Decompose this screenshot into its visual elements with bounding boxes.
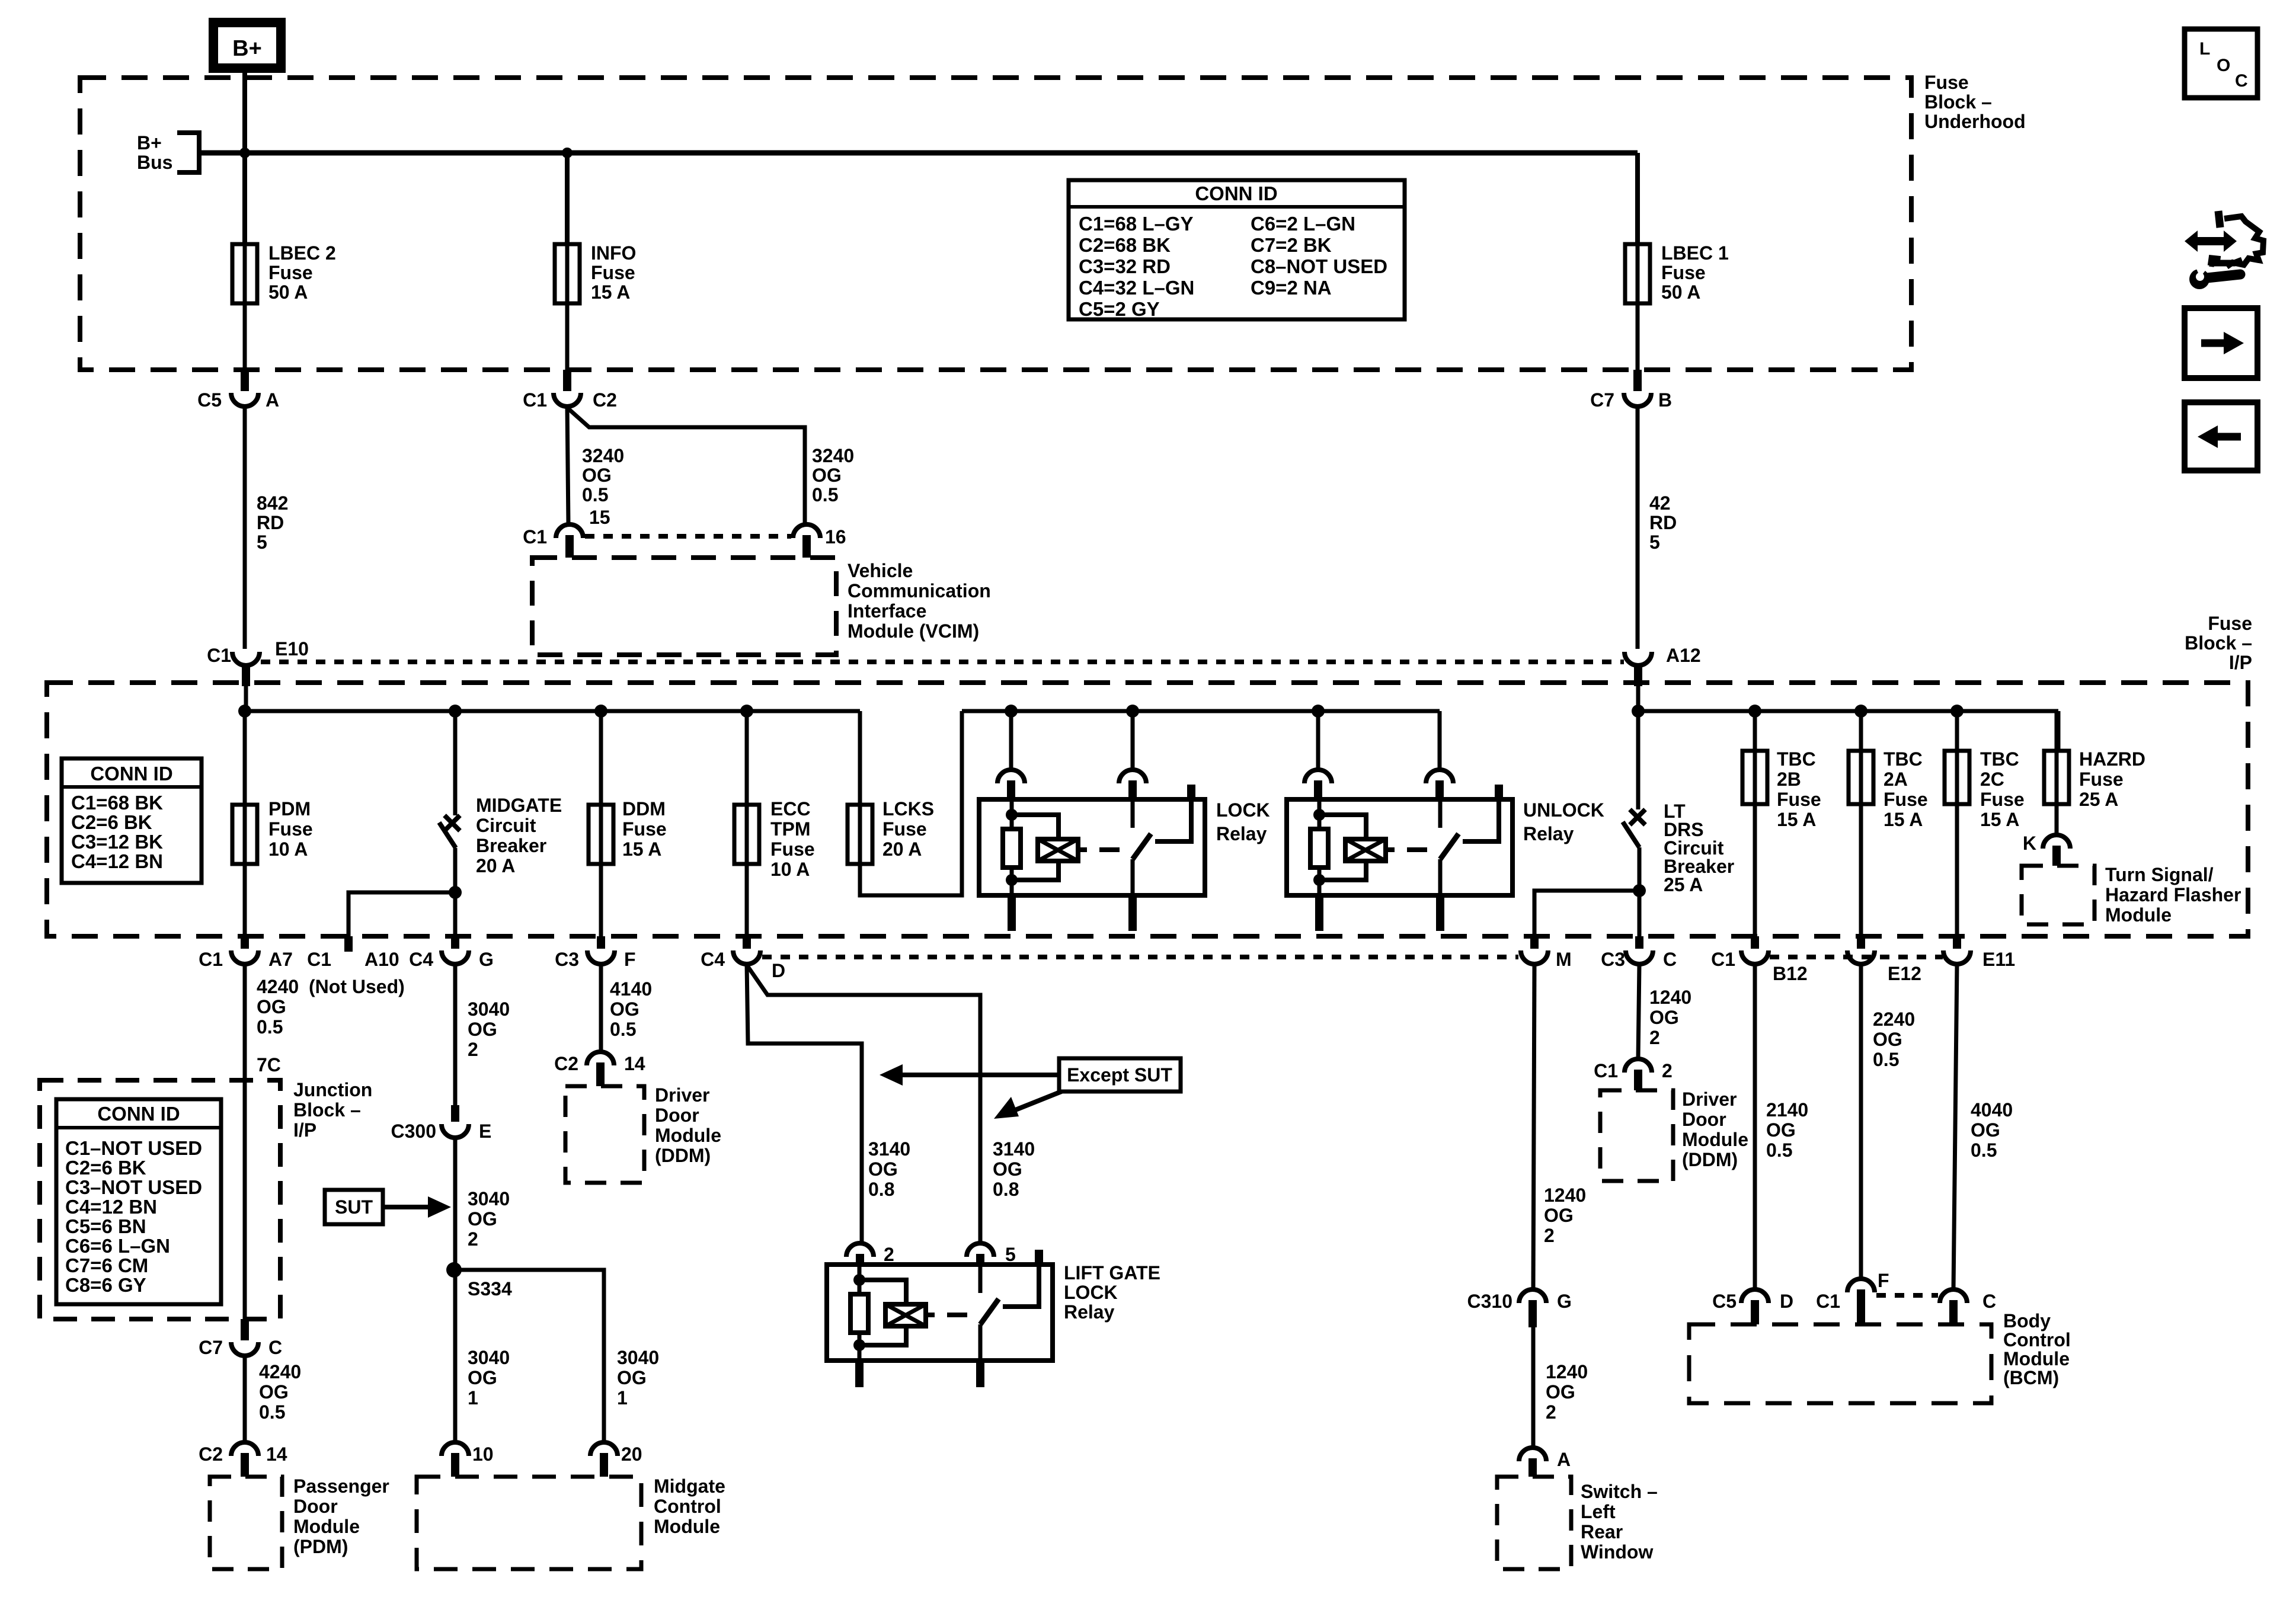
- junction dot bus TBC2A: [1854, 705, 1868, 718]
- svg-text:(DDM): (DDM): [655, 1145, 711, 1166]
- wire PDM drop: [243, 711, 247, 805]
- wire B+ bus horizontal: [199, 151, 1638, 156]
- junction dot bus TBC2B: [1748, 705, 1761, 718]
- svg-text:Relay: Relay: [1523, 823, 1574, 844]
- svg-text:Fuse: Fuse: [1661, 262, 1706, 283]
- connector C3 F: [555, 936, 635, 970]
- svg-text:C3: C3: [555, 949, 579, 970]
- svg-text:F: F: [1878, 1270, 1889, 1291]
- table CONN ID junction: [56, 1099, 221, 1304]
- svg-text:10 A: 10 A: [268, 838, 308, 860]
- label 42 RD 5: [1649, 492, 1677, 553]
- junction dot bus A12: [1632, 705, 1645, 718]
- svg-text:3240: 3240: [582, 445, 624, 466]
- connector A into switch: [1519, 1448, 1571, 1477]
- svg-text:0.5: 0.5: [1766, 1140, 1792, 1161]
- wire PDM to border: [243, 864, 247, 936]
- svg-text:D: D: [1780, 1291, 1793, 1312]
- wire E12 down: [1859, 964, 1863, 1279]
- svg-text:A: A: [1557, 1449, 1571, 1470]
- svg-text:LCKS: LCKS: [882, 798, 934, 820]
- label 2140 OG 0.5: [1766, 1099, 1808, 1161]
- svg-text:Module (VCIM): Module (VCIM): [848, 620, 979, 642]
- wire HAZRD fuse drop: [2044, 711, 2069, 804]
- svg-text:Rear: Rear: [1581, 1521, 1623, 1542]
- svg-text:C3=32 RD: C3=32 RD: [1079, 255, 1171, 277]
- connector C7 C: [199, 1319, 282, 1358]
- connector K: [2023, 833, 2070, 866]
- svg-text:Control: Control: [654, 1496, 721, 1517]
- svg-text:0.5: 0.5: [1873, 1049, 1899, 1070]
- svg-text:Fuse: Fuse: [1777, 789, 1821, 810]
- svg-text:Except SUT: Except SUT: [1067, 1064, 1172, 1086]
- svg-text:C: C: [268, 1337, 282, 1358]
- svg-text:7C: 7C: [257, 1054, 281, 1076]
- icon arrow right box: [2185, 308, 2257, 378]
- svg-text:14: 14: [266, 1443, 287, 1465]
- dotted connector line E10 to A12: [261, 660, 1624, 664]
- svg-text:C2: C2: [593, 389, 617, 411]
- fuse PDM 10A: [232, 805, 257, 864]
- label 3040 OG 1 right: [617, 1347, 659, 1409]
- circuit breaker MIDGATE blade: [439, 822, 456, 848]
- circuit breaker MIDGATE X: [445, 815, 460, 831]
- junction dot S MIDGATE: [449, 886, 462, 899]
- wire M branch: [1534, 891, 1639, 936]
- svg-text:20: 20: [621, 1443, 642, 1465]
- svg-text:0.5: 0.5: [257, 1016, 283, 1038]
- svg-text:Module: Module: [654, 1516, 720, 1537]
- fuse LCKS 20A: [848, 805, 872, 864]
- label PDM module: [293, 1475, 389, 1557]
- svg-text:20 A: 20 A: [476, 855, 515, 876]
- svg-text:E10: E10: [275, 638, 309, 660]
- svg-text:C7: C7: [1590, 389, 1614, 411]
- svg-text:Breaker: Breaker: [476, 835, 546, 856]
- wire M down: [1533, 964, 1534, 1289]
- wire D branch left: [747, 964, 862, 1243]
- label except SUT box: [1059, 1058, 1181, 1092]
- svg-text:Module: Module: [2105, 904, 2172, 926]
- fuse TBC 2C 15A: [1945, 751, 1969, 804]
- svg-text:Fuse: Fuse: [622, 818, 667, 840]
- connector C7 B: [1590, 370, 1672, 411]
- svg-text:Underhood: Underhood: [1924, 111, 2026, 132]
- svg-text:Body: Body: [2003, 1310, 2051, 1331]
- wire LBEC1 drop: [1635, 153, 1640, 244]
- svg-text:G: G: [479, 949, 494, 970]
- svg-text:Window: Window: [1581, 1541, 1653, 1563]
- connector C1 15 into VCIM: [523, 507, 610, 558]
- svg-text:E: E: [479, 1121, 491, 1142]
- label junction block IP: [293, 1079, 372, 1141]
- connector C into BCM: [1940, 1289, 1996, 1324]
- svg-text:5: 5: [1005, 1244, 1016, 1265]
- svg-text:Door: Door: [655, 1105, 699, 1126]
- svg-text:C2=6 BK: C2=6 BK: [65, 1157, 146, 1179]
- svg-text:3040: 3040: [468, 1188, 510, 1209]
- svg-text:0.8: 0.8: [868, 1179, 894, 1200]
- svg-text:4140: 4140: [610, 978, 652, 1000]
- circuit breaker LTDRS X: [1630, 809, 1645, 825]
- wire LCKS drop and return: [860, 711, 962, 895]
- svg-text:ECC: ECC: [770, 798, 811, 820]
- svg-text:C2: C2: [199, 1443, 223, 1465]
- svg-text:50 A: 50 A: [268, 281, 308, 303]
- dotted connector line F to C: [1876, 1293, 1938, 1298]
- svg-text:E12: E12: [1888, 963, 1921, 984]
- label DDM left: [655, 1084, 721, 1166]
- connector C4 G: [409, 936, 494, 970]
- connector C2 14 into PDM: [199, 1442, 287, 1477]
- svg-text:RD: RD: [1649, 512, 1677, 533]
- svg-text:15 A: 15 A: [1777, 809, 1816, 830]
- junction dot bus TBC2C: [1950, 705, 1964, 718]
- svg-text:C2=68 BK: C2=68 BK: [1079, 234, 1171, 256]
- svg-text:C4=12 BN: C4=12 BN: [71, 850, 163, 872]
- svg-text:A7: A7: [268, 949, 293, 970]
- svg-text:(Not Used): (Not Used): [309, 976, 405, 997]
- label B+ Bus: [137, 132, 172, 173]
- svg-text:2: 2: [1649, 1027, 1660, 1048]
- svg-text:25 A: 25 A: [2079, 789, 2118, 810]
- svg-text:C1: C1: [1711, 949, 1735, 970]
- svg-text:TPM: TPM: [770, 818, 811, 840]
- svg-text:2140: 2140: [1766, 1099, 1808, 1121]
- svg-text:0.5: 0.5: [259, 1401, 285, 1423]
- connector C5 A: [197, 370, 279, 411]
- svg-text:5: 5: [257, 532, 267, 553]
- svg-text:A: A: [266, 389, 279, 411]
- label 1240 OG 2 right: [1649, 987, 1691, 1048]
- connector UNLOCK coil: [1304, 770, 1332, 801]
- connector C3 C: [1601, 936, 1677, 970]
- wire A7 down: [243, 964, 247, 1321]
- power symbol B+ box: [213, 23, 281, 68]
- connector C310 G: [1467, 1289, 1572, 1327]
- svg-text:Fuse: Fuse: [882, 818, 927, 840]
- wire UNLOCK switch drop corner: [1438, 711, 1442, 770]
- svg-text:C1: C1: [1594, 1060, 1618, 1081]
- svg-text:K: K: [2023, 833, 2036, 854]
- svg-text:OG: OG: [468, 1208, 497, 1230]
- svg-text:D: D: [772, 960, 785, 981]
- svg-text:C7=6 CM: C7=6 CM: [65, 1254, 148, 1276]
- svg-text:C7=2 BK: C7=2 BK: [1251, 234, 1332, 256]
- svg-text:0.8: 0.8: [993, 1179, 1019, 1200]
- svg-text:C1: C1: [207, 645, 231, 666]
- connector M: [1521, 936, 1572, 970]
- svg-text:1240: 1240: [1546, 1361, 1588, 1382]
- wire INFO drop: [565, 153, 570, 244]
- label TBC 2A: [1884, 748, 1928, 830]
- svg-text:C8=6 GY: C8=6 GY: [65, 1274, 146, 1296]
- svg-text:G: G: [1557, 1291, 1572, 1312]
- svg-text:B: B: [1658, 389, 1672, 411]
- wire DDM to border: [599, 864, 603, 936]
- svg-text:C5=2 GY: C5=2 GY: [1079, 298, 1160, 320]
- svg-text:C2=6 BK: C2=6 BK: [71, 811, 152, 833]
- svg-text:C4: C4: [409, 949, 433, 970]
- svg-text:UNLOCK: UNLOCK: [1523, 799, 1604, 821]
- svg-text:Driver: Driver: [655, 1084, 710, 1106]
- svg-text:LIFT GATE: LIFT GATE: [1064, 1262, 1160, 1283]
- wire LOCK coil feed: [1009, 711, 1013, 770]
- junction dot bus at LBEC2: [239, 148, 250, 158]
- svg-text:Relay: Relay: [1216, 823, 1267, 844]
- dotted connector line 15 to 16: [585, 534, 791, 539]
- label HAZRD fuse: [2079, 748, 2145, 810]
- B+ Bus bracket: [177, 133, 199, 172]
- wire E11 down: [1953, 964, 1957, 1289]
- wire F down: [599, 964, 603, 1052]
- svg-text:C8–NOT USED: C8–NOT USED: [1251, 255, 1387, 277]
- svg-text:INFO: INFO: [591, 242, 636, 264]
- svg-text:C1: C1: [523, 389, 547, 411]
- svg-text:Control: Control: [2003, 1329, 2071, 1350]
- label VCIM: [848, 560, 991, 642]
- module BCM dashed box: [1689, 1324, 1991, 1403]
- svg-text:Communication: Communication: [848, 580, 991, 601]
- wire TBC2C drop: [1955, 711, 1959, 751]
- module DDM right dashed box: [1600, 1090, 1673, 1181]
- svg-text:C2: C2: [554, 1053, 578, 1074]
- svg-text:1: 1: [468, 1387, 478, 1409]
- svg-text:2: 2: [468, 1039, 478, 1060]
- svg-text:0.5: 0.5: [1971, 1140, 1997, 1161]
- svg-text:C1=68 L–GY: C1=68 L–GY: [1079, 213, 1194, 235]
- svg-text:Door: Door: [1682, 1109, 1726, 1130]
- svg-text:Left: Left: [1581, 1501, 1616, 1522]
- module PDM dashed box: [210, 1477, 282, 1569]
- svg-text:C4=32 L–GN: C4=32 L–GN: [1079, 277, 1194, 299]
- bus segment 2: [962, 709, 1440, 713]
- svg-text:CONN ID: CONN ID: [97, 1103, 180, 1125]
- svg-text:C: C: [1663, 949, 1677, 970]
- svg-text:15: 15: [589, 507, 610, 528]
- svg-text:C6=6 L–GN: C6=6 L–GN: [65, 1235, 170, 1257]
- svg-text:OG: OG: [1873, 1029, 1902, 1050]
- svg-text:20 A: 20 A: [882, 838, 922, 860]
- connector 10 into midgate: [442, 1442, 494, 1477]
- svg-text:PDM: PDM: [268, 798, 311, 820]
- svg-text:L: L: [2199, 39, 2210, 59]
- svg-text:Vehicle: Vehicle: [848, 560, 913, 581]
- module turn signal hazard flasher dashed box: [2022, 866, 2094, 924]
- connector LOCK coil: [997, 770, 1025, 801]
- svg-text:15 A: 15 A: [622, 838, 661, 860]
- wire E10 into IP box: [244, 686, 248, 711]
- label 7C: [257, 1054, 281, 1076]
- svg-text:OG: OG: [257, 996, 286, 1017]
- svg-text:Fuse: Fuse: [591, 262, 635, 283]
- svg-text:TBC: TBC: [1980, 748, 2019, 770]
- svg-text:OG: OG: [610, 998, 639, 1020]
- svg-text:C1: C1: [199, 949, 223, 970]
- wire S334 branch: [454, 1270, 604, 1442]
- svg-text:C6=2 L–GN: C6=2 L–GN: [1251, 213, 1355, 235]
- connector 20 into midgate: [590, 1442, 642, 1477]
- svg-text:LOCK: LOCK: [1216, 799, 1270, 821]
- label LCKS fuse: [882, 798, 934, 860]
- svg-text:OG: OG: [868, 1158, 898, 1180]
- svg-text:TBC: TBC: [1777, 748, 1816, 770]
- module midgate control dashed box: [417, 1477, 641, 1569]
- svg-text:OG: OG: [582, 465, 612, 486]
- svg-text:C3: C3: [1601, 949, 1625, 970]
- svg-text:DDM: DDM: [622, 798, 666, 820]
- label 3140 OG 0.8 right: [993, 1138, 1035, 1200]
- svg-text:F: F: [624, 949, 636, 970]
- svg-text:Block –: Block –: [2185, 632, 2252, 654]
- circuit breaker LTDRS blade: [1623, 822, 1639, 847]
- svg-text:C300: C300: [391, 1121, 437, 1142]
- connector C2 14 into DDM: [554, 1052, 645, 1086]
- svg-text:16: 16: [825, 526, 846, 548]
- svg-text:OG: OG: [993, 1158, 1022, 1180]
- connector E12: [1847, 936, 1921, 984]
- wire C7C down: [243, 1356, 247, 1442]
- svg-text:MIDGATE: MIDGATE: [476, 795, 562, 816]
- label LBEC 2: [268, 242, 336, 303]
- label 2240 OG 0.5: [1873, 1009, 1915, 1070]
- svg-text:OG: OG: [1766, 1119, 1796, 1141]
- svg-text:OG: OG: [1649, 1007, 1679, 1028]
- svg-text:Turn Signal/: Turn Signal/: [2105, 864, 2214, 885]
- wire C down: [1638, 964, 1639, 1059]
- svg-text:A12: A12: [1666, 645, 1701, 666]
- label midgate control module: [654, 1475, 725, 1537]
- svg-text:RD: RD: [257, 512, 284, 533]
- label ECC TPM fuse: [770, 798, 815, 880]
- fuse LBEC 1 50A: [1625, 244, 1650, 303]
- fuse LBEC 2 50A: [232, 244, 257, 303]
- svg-text:OG: OG: [812, 465, 842, 486]
- wire INFO to border: [565, 303, 570, 370]
- svg-text:Switch –: Switch –: [1581, 1481, 1658, 1502]
- svg-text:(DDM): (DDM): [1682, 1149, 1738, 1170]
- svg-text:O: O: [2217, 56, 2230, 75]
- svg-text:OG: OG: [468, 1019, 497, 1040]
- svg-text:50 A: 50 A: [1661, 281, 1700, 303]
- svg-text:I/P: I/P: [2229, 652, 2252, 673]
- svg-text:E11: E11: [1982, 949, 2015, 970]
- label 3040 OG 1 left: [468, 1347, 510, 1409]
- fuse INFO 15A: [555, 244, 580, 303]
- relay UNLOCK: [1287, 785, 1512, 931]
- svg-text:Passenger: Passenger: [293, 1475, 389, 1497]
- wire TBC2B to border: [1753, 804, 1757, 936]
- svg-text:1: 1: [617, 1387, 628, 1409]
- svg-text:15 A: 15 A: [591, 281, 630, 303]
- svg-text:C3=12 BK: C3=12 BK: [71, 831, 163, 853]
- label 3040 OG 2 lower: [468, 1188, 510, 1250]
- svg-text:LBEC 2: LBEC 2: [268, 242, 336, 264]
- svg-text:2C: 2C: [1980, 769, 2004, 790]
- wire 42 RD 5: [1636, 406, 1640, 649]
- svg-text:Module: Module: [655, 1125, 721, 1146]
- relay LIFT GATE LOCK: [827, 1250, 1053, 1387]
- label 4240 OG 0.5 lower: [259, 1361, 301, 1423]
- svg-text:C4=12 BN: C4=12 BN: [65, 1196, 157, 1218]
- junction dot LTDRS out: [1633, 884, 1646, 897]
- svg-text:C4: C4: [701, 949, 725, 970]
- svg-text:Relay: Relay: [1064, 1301, 1115, 1323]
- svg-text:42: 42: [1649, 492, 1671, 514]
- label 1240 OG 2 lower: [1546, 1361, 1588, 1423]
- svg-text:10 A: 10 A: [770, 859, 810, 880]
- svg-text:Circuit: Circuit: [476, 815, 536, 836]
- svg-text:4040: 4040: [1971, 1099, 2013, 1121]
- svg-text:C3–NOT USED: C3–NOT USED: [65, 1176, 202, 1198]
- wire LOCK switch feed: [1131, 711, 1135, 770]
- connector 5 into liftgate relay: [967, 1243, 1016, 1265]
- connector C1 F into BCM: [1816, 1270, 1889, 1324]
- wire B12 down: [1753, 964, 1757, 1289]
- svg-text:4240: 4240: [259, 1361, 301, 1382]
- label PDM fuse: [268, 798, 313, 860]
- label LBEC 1: [1661, 242, 1729, 303]
- wire G down: [453, 964, 458, 1108]
- wire C2 branch to pin 16: [567, 408, 805, 524]
- bus segment 3: [1638, 709, 2058, 713]
- arrow SUT: [383, 1196, 451, 1218]
- connector C5 D into BCM: [1712, 1289, 1793, 1324]
- connector 16 into VCIM: [793, 524, 846, 558]
- svg-text:Interface: Interface: [848, 600, 926, 622]
- svg-text:1240: 1240: [1649, 987, 1691, 1008]
- wire HAZRD drop corner: [2057, 711, 2061, 751]
- connector C1 A10 not used: [307, 936, 405, 997]
- wire UNLOCK coil feed: [1316, 711, 1320, 770]
- svg-text:2: 2: [884, 1244, 894, 1265]
- wire DDM drop: [599, 711, 603, 805]
- svg-text:Fuse: Fuse: [268, 262, 313, 283]
- label DDM fuse: [622, 798, 667, 860]
- junction dot bus PDM: [238, 705, 251, 718]
- svg-text:C: C: [2235, 71, 2248, 91]
- wire ECC drop: [745, 711, 749, 805]
- table CONN ID underhood: [1069, 180, 1405, 320]
- label TBC 2C: [1980, 748, 2025, 830]
- svg-text:A10: A10: [364, 949, 399, 970]
- fuse ECC TPM 10A: [734, 805, 759, 864]
- svg-text:Fuse: Fuse: [1884, 789, 1928, 810]
- svg-text:Door: Door: [293, 1496, 338, 1517]
- label lift gate lock relay: [1064, 1262, 1160, 1323]
- svg-text:HAZRD: HAZRD: [2079, 748, 2145, 770]
- connector C300 E: [391, 1105, 492, 1142]
- svg-text:Junction: Junction: [293, 1079, 372, 1100]
- junction dot bus LOCK coil: [1005, 705, 1018, 718]
- svg-text:15 A: 15 A: [1980, 809, 2019, 830]
- svg-text:C1: C1: [307, 949, 331, 970]
- svg-text:C5: C5: [1712, 1291, 1737, 1312]
- svg-text:(PDM): (PDM): [293, 1536, 348, 1557]
- svg-text:(BCM): (BCM): [2003, 1367, 2059, 1388]
- svg-text:3140: 3140: [993, 1138, 1035, 1160]
- svg-text:Module: Module: [1682, 1129, 1748, 1150]
- wire A10 branch: [348, 892, 455, 936]
- svg-text:C1–NOT USED: C1–NOT USED: [65, 1137, 202, 1159]
- connector 2 into liftgate relay: [846, 1243, 894, 1265]
- connector A12: [1625, 645, 1701, 686]
- wire MIDGATE below breaker: [453, 848, 458, 936]
- junction dot bus UNLOCK coil: [1312, 705, 1325, 718]
- svg-text:2: 2: [1546, 1401, 1556, 1423]
- svg-text:C1=68 BK: C1=68 BK: [71, 792, 163, 814]
- svg-text:2: 2: [468, 1228, 478, 1250]
